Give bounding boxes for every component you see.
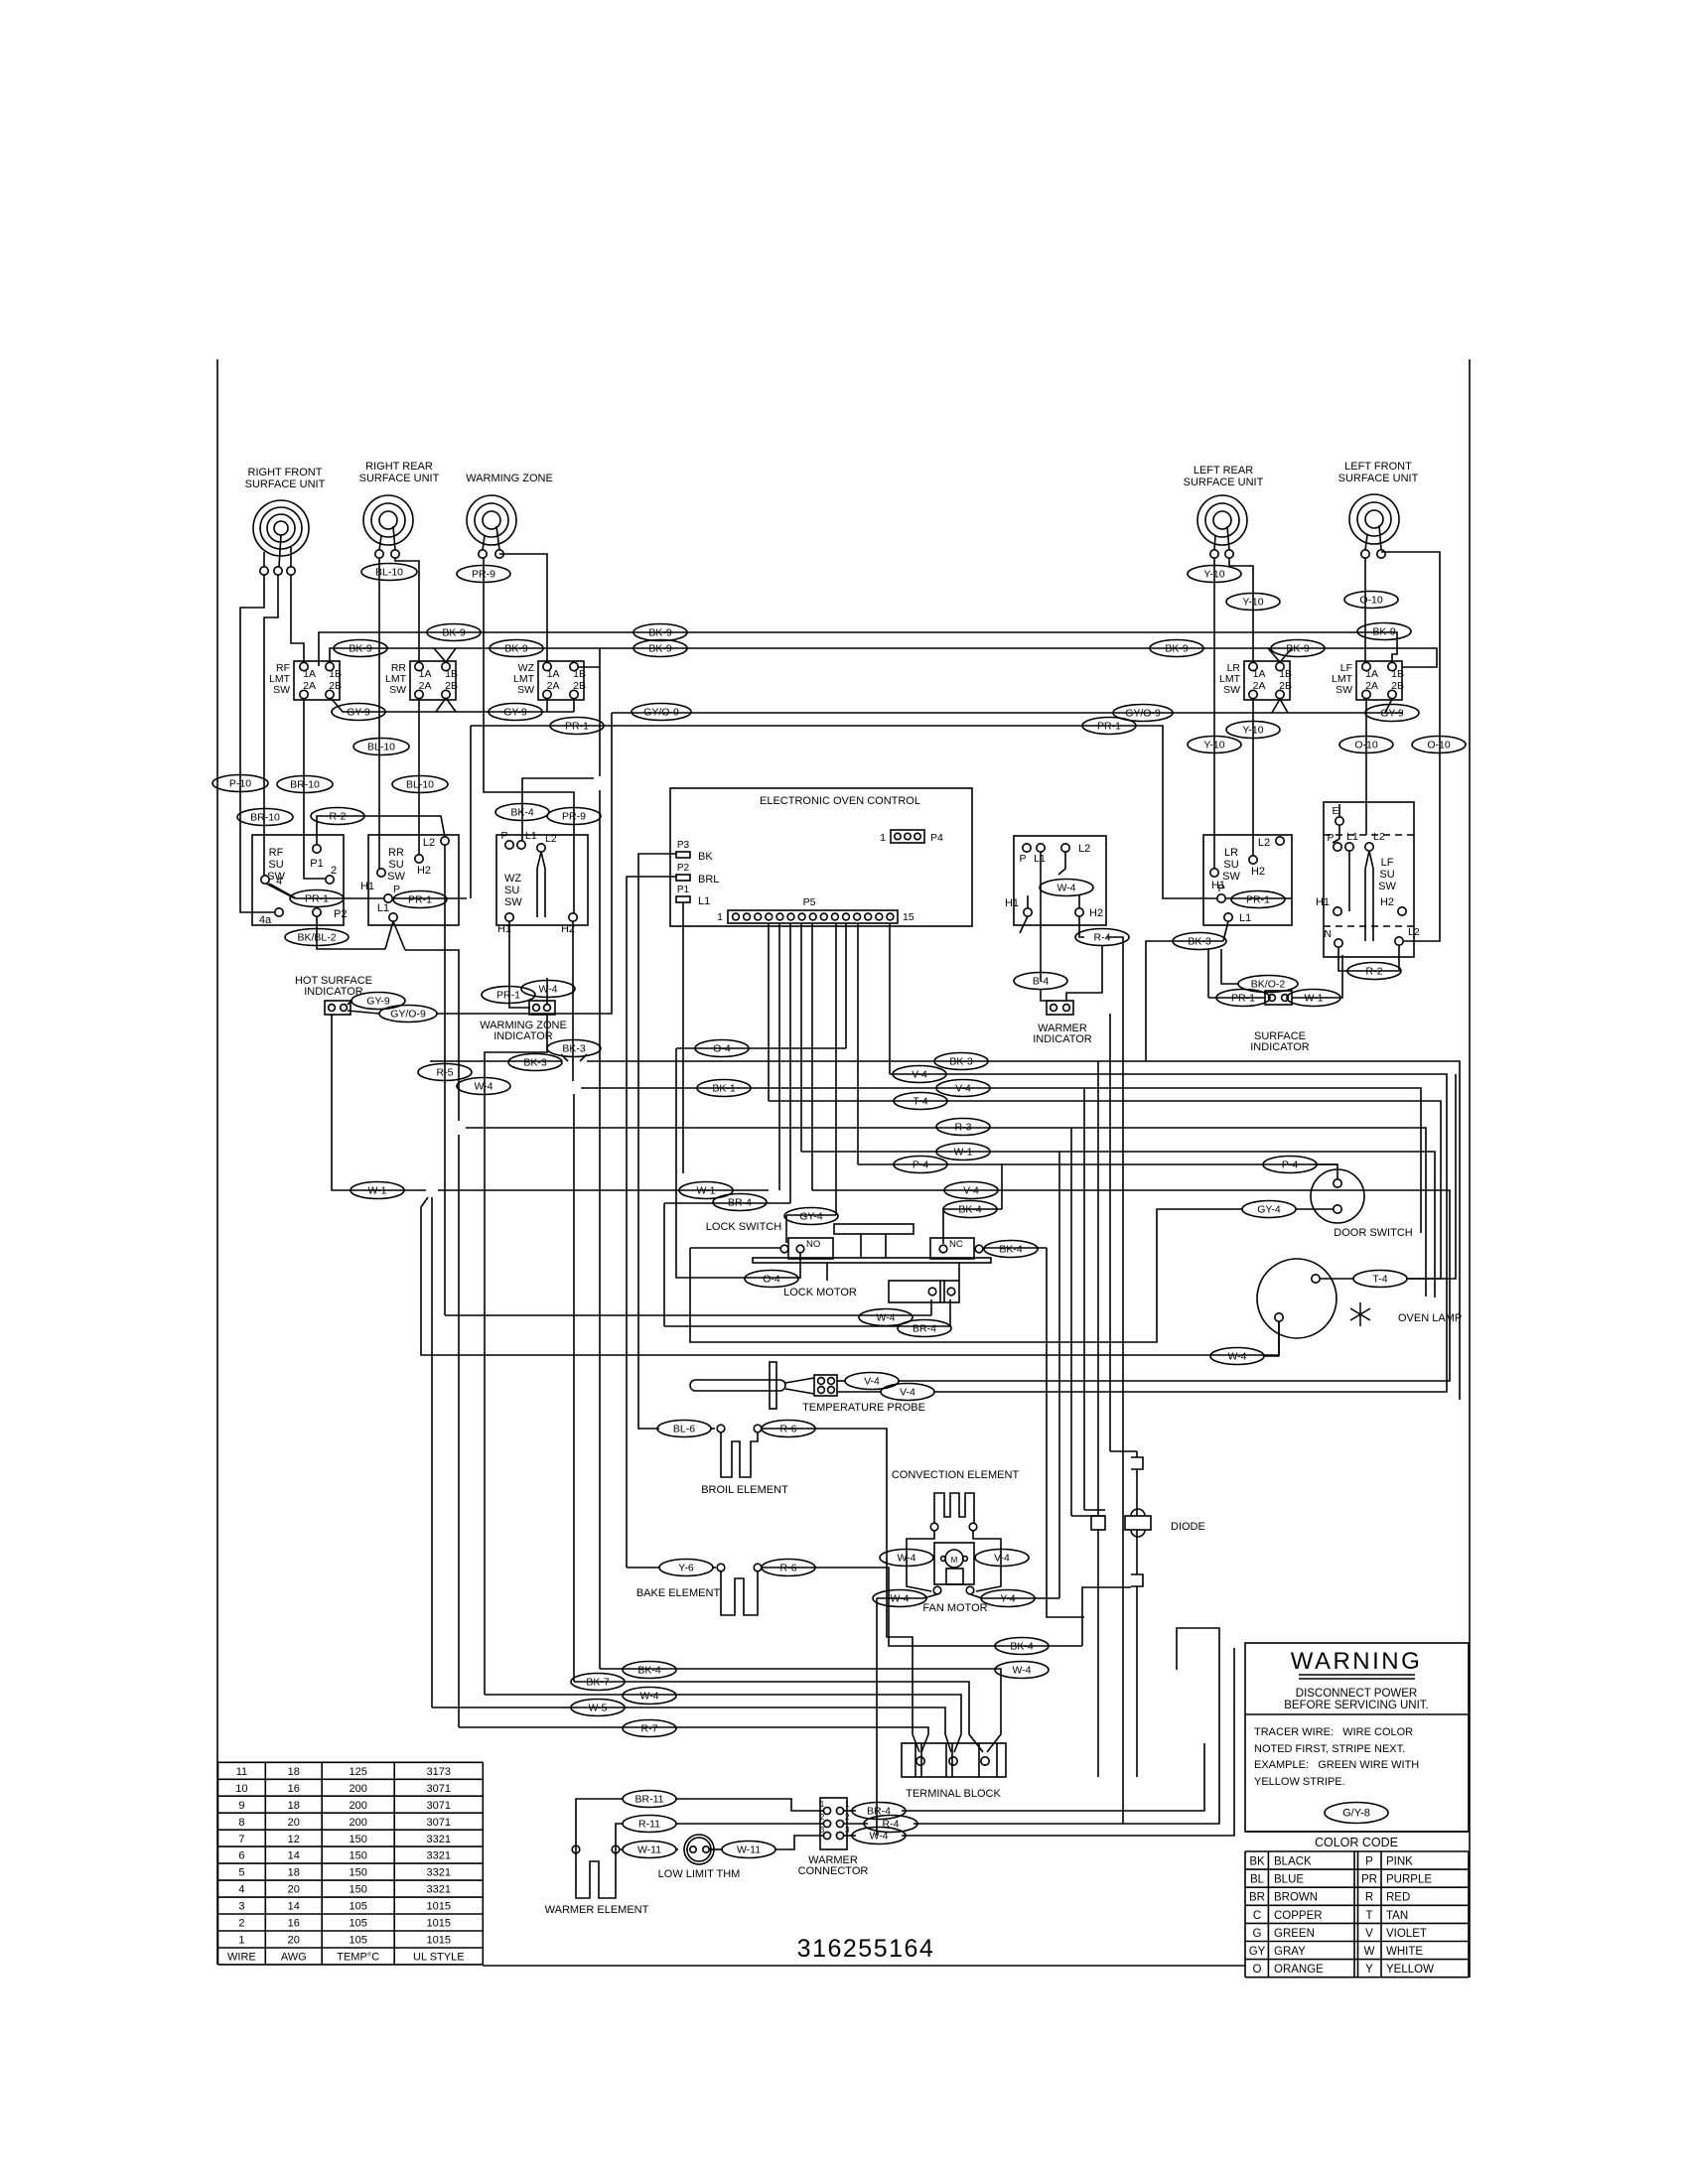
wire	[627, 1567, 660, 1569]
wire	[664, 1202, 790, 1204]
svg-text:Y-10: Y-10	[1203, 740, 1224, 751]
svg-text:OVEN LAMP: OVEN LAMP	[1398, 1312, 1462, 1324]
wire label BK-1	[697, 1080, 751, 1097]
svg-text:2B: 2B	[1279, 680, 1292, 692]
svg-text:18: 18	[288, 1867, 300, 1879]
svg-text:200: 200	[350, 1783, 367, 1795]
svg-text:P5: P5	[803, 896, 816, 908]
svg-text:1: 1	[717, 911, 723, 923]
svg-text:200: 200	[350, 1800, 367, 1812]
wire	[485, 1015, 547, 1695]
wire	[690, 1209, 1243, 1342]
svg-text:L2: L2	[1078, 843, 1090, 855]
svg-text:3321: 3321	[427, 1850, 451, 1862]
svg-text:VIOLET: VIOLET	[1386, 1928, 1427, 1940]
svg-text:BK-4: BK-4	[958, 1204, 982, 1216]
wire	[1070, 1128, 1072, 1516]
wire	[675, 1823, 823, 1825]
wire label BK-4	[495, 804, 549, 821]
wire label BK-9	[490, 640, 543, 657]
svg-text:12: 12	[288, 1834, 300, 1845]
wire	[1109, 1014, 1111, 1451]
wire	[599, 790, 601, 1669]
svg-text:1: 1	[880, 832, 886, 844]
terminal block	[902, 1743, 1006, 1777]
svg-text:14: 14	[288, 1901, 300, 1913]
wire	[675, 1799, 823, 1811]
wire	[627, 877, 676, 1568]
svg-text:BK-3: BK-3	[562, 1043, 586, 1055]
wire	[431, 1197, 433, 1707]
wire	[837, 1380, 846, 1382]
wire	[675, 1848, 678, 1850]
svg-text:GY/O-9: GY/O-9	[1125, 708, 1161, 720]
svg-text:150: 150	[350, 1867, 367, 1879]
svg-text:R-3: R-3	[955, 1122, 972, 1134]
wire label BK-9	[633, 640, 687, 657]
svg-text:W-11: W-11	[637, 1844, 661, 1856]
wire	[902, 1648, 1234, 1836]
svg-text:BL-10: BL-10	[375, 567, 403, 579]
wire	[332, 1015, 350, 1190]
wire label R-3	[936, 1119, 990, 1136]
wire	[240, 575, 275, 912]
svg-text:O-4: O-4	[763, 1274, 780, 1286]
wire label O-10	[1412, 737, 1466, 753]
svg-text:W-1: W-1	[696, 1185, 715, 1197]
wire	[612, 712, 1402, 714]
svg-text:H2: H2	[1251, 866, 1265, 878]
svg-text:AWG: AWG	[281, 1952, 307, 1964]
wire	[1084, 1509, 1105, 1511]
svg-text:2A: 2A	[547, 680, 560, 692]
svg-text:BK-9: BK-9	[648, 643, 672, 655]
wire	[600, 1669, 1001, 1752]
svg-text:WHITE: WHITE	[1386, 1946, 1423, 1958]
wire	[1252, 699, 1254, 856]
svg-text:V-4: V-4	[912, 1069, 927, 1081]
svg-text:BK-9: BK-9	[504, 643, 528, 655]
svg-text:BROWN: BROWN	[1274, 1892, 1318, 1904]
wire label R-2	[311, 808, 364, 825]
svg-text:Y-10: Y-10	[1242, 597, 1263, 609]
svg-text:O-10: O-10	[1427, 740, 1451, 751]
svg-text:P: P	[1217, 883, 1224, 894]
wire label BR-11	[623, 1791, 676, 1808]
svg-text:3321: 3321	[427, 1867, 451, 1879]
wire label W-4	[852, 1828, 906, 1844]
fan motor	[934, 1543, 974, 1584]
wire label R-7	[623, 1720, 676, 1737]
wire	[858, 1163, 1316, 1165]
svg-text:BR-4: BR-4	[728, 1197, 752, 1209]
svg-text:BK-1: BK-1	[712, 1083, 736, 1095]
svg-text:2: 2	[331, 865, 337, 877]
warning box	[1245, 1643, 1469, 1832]
wire label BK-7	[571, 1674, 625, 1691]
svg-text:16: 16	[288, 1918, 300, 1930]
wire	[437, 713, 612, 1014]
wire label V-4	[936, 1080, 990, 1097]
wire label O-10	[1339, 737, 1393, 753]
svg-text:2: 2	[845, 1813, 850, 1822]
limit switch LF LMT SW	[1356, 661, 1402, 700]
wire	[573, 1094, 575, 1682]
svg-text:BK-9: BK-9	[349, 643, 372, 655]
svg-text:14: 14	[288, 1850, 300, 1862]
wire	[317, 916, 385, 949]
svg-text:H2: H2	[1380, 896, 1394, 908]
surface unit RIGHT REAR coil	[363, 495, 413, 545]
svg-text:15: 15	[903, 911, 914, 923]
svg-text:3071: 3071	[427, 1800, 451, 1812]
svg-text:TAN: TAN	[1386, 1910, 1408, 1922]
svg-text:CONNECTOR: CONNECTOR	[798, 1865, 869, 1877]
svg-text:Y: Y	[1365, 1964, 1373, 1976]
wire label V-4	[975, 1550, 1029, 1567]
wire	[902, 1743, 1204, 1811]
svg-text:1: 1	[238, 1935, 244, 1947]
wire label T-4	[1353, 1271, 1407, 1288]
svg-text:1A: 1A	[303, 668, 316, 680]
wire label BK-3	[934, 1053, 988, 1070]
svg-text:BK/BL-2: BK/BL-2	[297, 932, 336, 944]
wire	[378, 558, 380, 869]
wire label W-11	[623, 1842, 676, 1858]
svg-text:4a: 4a	[259, 914, 272, 926]
junction	[1091, 1516, 1105, 1530]
svg-text:ELECTRONIC OVEN CONTROL: ELECTRONIC OVEN CONTROL	[760, 795, 920, 807]
svg-text:W: W	[1364, 1946, 1375, 1958]
wire	[1146, 941, 1223, 1061]
lock assembly top bar	[834, 1224, 914, 1234]
svg-text:W-1: W-1	[367, 1185, 386, 1197]
wire	[982, 1597, 1059, 1599]
wire	[712, 1567, 716, 1569]
svg-text:3: 3	[820, 1826, 825, 1835]
wire label GY-9	[1365, 705, 1419, 722]
svg-text:G/Y-8: G/Y-8	[1342, 1808, 1370, 1820]
svg-text:PR: PR	[1361, 1874, 1377, 1886]
oven lamp asterisk	[1350, 1302, 1370, 1326]
svg-text:COLOR CODE: COLOR CODE	[1315, 1836, 1398, 1849]
svg-text:P4: P4	[930, 832, 943, 844]
wire	[573, 699, 575, 712]
svg-text:L2: L2	[1408, 926, 1420, 938]
terminal P3 BK	[676, 852, 690, 858]
wire label W-11	[722, 1842, 775, 1858]
wire	[973, 1531, 1001, 1591]
svg-text:20: 20	[288, 1884, 300, 1896]
svg-text:PINK: PINK	[1386, 1856, 1413, 1868]
wire	[1365, 699, 1367, 835]
switch LF SU SW	[1324, 802, 1414, 957]
surface indicator leads	[1208, 949, 1265, 998]
svg-text:BK-9: BK-9	[1165, 643, 1189, 655]
wire	[434, 648, 446, 662]
LF terminals	[1361, 550, 1369, 558]
wire	[1213, 558, 1215, 869]
wire	[983, 1247, 1047, 1249]
wire label BK-9	[334, 640, 387, 657]
wire label GY/O-9	[379, 1006, 437, 1023]
svg-text:W-11: W-11	[737, 1844, 761, 1856]
svg-text:SU: SU	[1379, 869, 1394, 881]
wire	[943, 1209, 1002, 1244]
RR terminals	[375, 550, 383, 558]
svg-text:11: 11	[236, 1766, 247, 1778]
svg-text:O-10: O-10	[1354, 740, 1378, 751]
svg-text:SW: SW	[1336, 684, 1352, 696]
wire	[1364, 558, 1366, 661]
svg-text:3321: 3321	[427, 1884, 451, 1896]
wire	[330, 648, 1437, 667]
wire	[1083, 1088, 1085, 1315]
svg-text:SURFACE UNIT: SURFACE UNIT	[359, 473, 440, 484]
wire label W-4	[521, 981, 575, 998]
svg-text:V-4: V-4	[955, 1083, 971, 1095]
wire	[578, 666, 600, 668]
svg-text:SU: SU	[1223, 859, 1238, 871]
wire label BR-10	[277, 776, 333, 793]
wire	[499, 554, 547, 661]
wire label GY-4	[784, 1208, 838, 1225]
wire	[1110, 1450, 1137, 1452]
svg-text:125: 125	[350, 1766, 367, 1778]
wire	[430, 1060, 561, 1062]
wire label R-5	[418, 1064, 472, 1081]
wire	[769, 1101, 1441, 1279]
svg-text:T-4: T-4	[1372, 1274, 1387, 1286]
wire	[914, 1628, 1219, 1824]
svg-text:GY-9: GY-9	[1380, 708, 1404, 720]
wire label GY-4	[1242, 1201, 1296, 1218]
wire label GY/O-9	[1113, 705, 1173, 722]
svg-text:L1: L1	[1239, 912, 1251, 924]
svg-text:PURPLE: PURPLE	[1386, 1874, 1432, 1886]
wire	[812, 1190, 1450, 1381]
svg-text:BR-10: BR-10	[290, 779, 320, 791]
lock switch NC contact	[930, 1238, 974, 1259]
wire	[789, 923, 791, 1203]
svg-text:BAKE ELEMENT: BAKE ELEMENT	[636, 1587, 721, 1599]
wire	[1106, 937, 1123, 1824]
wire	[826, 1263, 828, 1281]
oven lamp leads	[1320, 1278, 1354, 1280]
svg-text:BLACK: BLACK	[1274, 1856, 1312, 1868]
svg-text:SURFACE UNIT: SURFACE UNIT	[1338, 473, 1419, 484]
wire label BK-9	[1150, 640, 1203, 657]
svg-text:316255164: 316255164	[797, 1935, 935, 1963]
wire label PR-1	[482, 987, 535, 1004]
svg-text:BK: BK	[698, 851, 713, 863]
svg-text:GY-4: GY-4	[1257, 1204, 1281, 1216]
svg-text:PR-1: PR-1	[496, 990, 520, 1002]
svg-text:2: 2	[238, 1918, 244, 1930]
svg-text:G: G	[1253, 1928, 1262, 1940]
wire	[877, 1597, 923, 1599]
lock base bar	[753, 1258, 991, 1263]
svg-text:LF: LF	[1381, 857, 1394, 869]
svg-text:V-4: V-4	[994, 1553, 1010, 1565]
wire	[801, 1152, 1435, 1297]
hot surface indicator connector	[325, 1001, 351, 1015]
wire	[620, 1848, 624, 1850]
wire	[572, 921, 574, 1081]
svg-text:O-10: O-10	[1359, 595, 1383, 607]
svg-text:W-4: W-4	[869, 1831, 888, 1843]
wire	[1097, 1061, 1099, 1516]
warmer element	[572, 1845, 580, 1853]
wire	[1229, 558, 1253, 661]
wire	[421, 1197, 1279, 1355]
wire label GY-9	[489, 704, 542, 721]
svg-text:1015: 1015	[427, 1918, 451, 1930]
svg-text:GY-9: GY-9	[503, 707, 527, 719]
wire label Y-10	[1188, 566, 1241, 583]
wire	[1082, 1587, 1131, 1646]
svg-text:BR-4: BR-4	[913, 1323, 936, 1335]
wire label W-1	[679, 1182, 733, 1199]
border frame bottom	[483, 1965, 1245, 1967]
wire	[857, 923, 859, 1164]
wire	[949, 1299, 951, 1326]
wire	[710, 1428, 715, 1430]
svg-text:V-4: V-4	[900, 1387, 915, 1399]
wire	[1272, 699, 1280, 713]
switch RF SU SW	[252, 835, 344, 925]
bake element	[717, 1564, 725, 1571]
wire	[1406, 1074, 1456, 1279]
wire label BR-10	[237, 809, 293, 826]
wire label W-4	[457, 1078, 510, 1095]
svg-text:W-1: W-1	[953, 1147, 972, 1159]
wire label BK-9	[427, 624, 481, 641]
svg-text:4: 4	[238, 1884, 244, 1896]
svg-text:RR: RR	[388, 847, 404, 859]
svg-text:BR-10: BR-10	[250, 812, 280, 824]
wire	[317, 816, 445, 845]
svg-text:105: 105	[350, 1901, 367, 1913]
wire	[690, 1247, 780, 1249]
wire label BK-9	[1271, 640, 1325, 657]
wire	[319, 632, 1397, 666]
svg-text:T: T	[1365, 1910, 1372, 1922]
wire label Y-6	[659, 1560, 713, 1576]
svg-text:BR-11: BR-11	[635, 1794, 664, 1806]
wire	[470, 726, 472, 898]
svg-text:3: 3	[845, 1826, 850, 1835]
svg-text:W-4: W-4	[1056, 883, 1075, 894]
svg-text:R-11: R-11	[638, 1819, 660, 1831]
svg-text:DISCONNECT POWER: DISCONNECT POWER	[1296, 1688, 1417, 1700]
svg-text:BK-4: BK-4	[999, 1244, 1023, 1256]
svg-text:L1: L1	[698, 895, 710, 907]
svg-text:TEMPERATURE PROBE: TEMPERATURE PROBE	[802, 1402, 925, 1414]
svg-text:W-4: W-4	[474, 1081, 492, 1093]
wire	[1280, 648, 1292, 662]
svg-text:150: 150	[350, 1834, 367, 1845]
wire label V-4	[944, 1182, 998, 1199]
svg-text:BEFORE SERVICING UNIT.: BEFORE SERVICING UNIT.	[1284, 1700, 1428, 1711]
svg-text:BLUE: BLUE	[1274, 1874, 1304, 1886]
wire label BK-3	[1173, 933, 1226, 950]
wire label R-6	[762, 1560, 815, 1576]
svg-text:SW: SW	[517, 684, 534, 696]
warmer indicator connector	[1047, 1001, 1073, 1015]
svg-text:2: 2	[820, 1813, 825, 1822]
wire	[522, 778, 594, 841]
svg-text:O-4: O-4	[713, 1043, 731, 1055]
svg-text:R-7: R-7	[641, 1723, 658, 1735]
svg-text:WARMING ZONE: WARMING ZONE	[466, 473, 553, 484]
svg-text:SU: SU	[268, 859, 283, 871]
svg-text:1B: 1B	[573, 668, 586, 680]
wire	[471, 726, 1217, 898]
svg-text:TEMP°C: TEMP°C	[337, 1952, 379, 1964]
svg-text:SURFACE UNIT: SURFACE UNIT	[245, 478, 326, 490]
svg-text:INDICATOR: INDICATOR	[1033, 1033, 1092, 1045]
wire label R-11	[623, 1816, 676, 1833]
svg-text:18: 18	[288, 1800, 300, 1812]
surface unit RIGHT FRONT coil	[253, 500, 309, 556]
wire label O-4	[695, 1040, 749, 1057]
wire	[405, 950, 459, 1121]
wire	[1385, 699, 1392, 713]
wire	[1058, 1152, 1060, 1598]
svg-text:105: 105	[350, 1935, 367, 1947]
wire label W-4	[995, 1662, 1049, 1679]
svg-text:GRAY: GRAY	[1274, 1946, 1306, 1958]
wire	[664, 1325, 950, 1327]
svg-text:PR-9: PR-9	[472, 569, 495, 581]
wire	[393, 921, 405, 950]
wire label GY-9	[332, 704, 385, 721]
svg-text:PR-1: PR-1	[1246, 894, 1270, 906]
wire	[676, 1048, 800, 1278]
wire	[546, 978, 548, 1004]
wire label BK-9	[633, 624, 687, 641]
svg-text:EXAMPLE: GREEN WIRE WITH: EXAMPLE: GREEN WIRE WITH	[1254, 1759, 1419, 1771]
svg-text:L1: L1	[525, 830, 537, 842]
svg-text:INDICATOR: INDICATOR	[493, 1030, 553, 1042]
svg-text:BK-9: BK-9	[442, 627, 466, 639]
svg-text:1A: 1A	[1365, 668, 1378, 680]
wire label PR-1	[393, 891, 447, 908]
wire label BR-4	[852, 1803, 906, 1820]
wire	[466, 1128, 1426, 1297]
svg-text:1015: 1015	[427, 1935, 451, 1947]
svg-text:BK-4: BK-4	[510, 807, 534, 819]
svg-text:PR-1: PR-1	[565, 721, 589, 733]
svg-text:BR: BR	[1249, 1892, 1265, 1904]
svg-text:BL-10: BL-10	[406, 779, 434, 791]
wire	[484, 558, 574, 913]
wire	[385, 921, 393, 949]
surface unit LEFT REAR coil	[1197, 495, 1247, 545]
wire	[576, 1799, 624, 1853]
wire	[269, 884, 384, 898]
svg-text:9: 9	[238, 1800, 244, 1812]
wire	[1381, 552, 1440, 941]
svg-text:L2: L2	[545, 833, 557, 845]
wire	[580, 1054, 587, 1061]
svg-text:1B: 1B	[445, 668, 458, 680]
wire	[1338, 804, 1340, 817]
svg-text:P-4: P-4	[913, 1160, 929, 1171]
svg-text:PR-1: PR-1	[1097, 721, 1121, 733]
svg-text:2A: 2A	[1253, 680, 1266, 692]
